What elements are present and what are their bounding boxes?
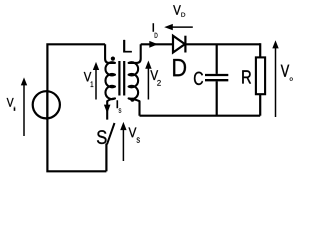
- label VD: [173, 5, 185, 16]
- switch S blade: [107, 123, 115, 144]
- polarity dot secondary: [130, 98, 134, 102]
- arrow ID on rail: [149, 41, 158, 48]
- arrow VD: [164, 24, 193, 30]
- label R: [242, 70, 251, 83]
- switch bottom lead: [105, 144, 107, 172]
- arrow V1: [93, 62, 99, 100]
- diode D triangle: [173, 36, 185, 53]
- arrow Vi: [21, 77, 27, 136]
- capacitor C top leg: [216, 44, 218, 74]
- wire top right rail: [141, 43, 261, 45]
- label ID: [153, 23, 158, 37]
- transformer secondary winding: [129, 44, 141, 115]
- arrow Vs: [120, 122, 126, 161]
- transformer core: [118, 61, 120, 96]
- label Vo: [281, 65, 293, 81]
- resistor R top lead: [259, 43, 261, 57]
- arrow Vo: [272, 40, 278, 117]
- label S: [97, 130, 107, 144]
- label Is: [117, 100, 122, 112]
- label V2: [150, 70, 160, 85]
- label L: [123, 40, 131, 52]
- resistor R bottom lead: [259, 94, 261, 116]
- label V1: [84, 72, 93, 87]
- capacitor C bottom leg: [216, 81, 218, 115]
- polarity dot primary: [111, 57, 115, 61]
- label D: [173, 59, 186, 76]
- capacitor C plates: [205, 74, 228, 76]
- resistor R body: [256, 57, 265, 94]
- wire bottom right rail: [140, 115, 261, 117]
- diode D cathode bar: [184, 36, 186, 53]
- transformer primary winding: [105, 44, 115, 119]
- label Vi: [7, 98, 16, 111]
- voltage source Vi circle: [33, 91, 60, 118]
- arrow V2: [145, 61, 151, 100]
- label C: [194, 72, 203, 85]
- label Vs: [129, 128, 140, 143]
- arrow Is on primary lead: [104, 105, 111, 114]
- wire left loop: source rails: [47, 44, 106, 171]
- wire left rail through source: [46, 90, 48, 120]
